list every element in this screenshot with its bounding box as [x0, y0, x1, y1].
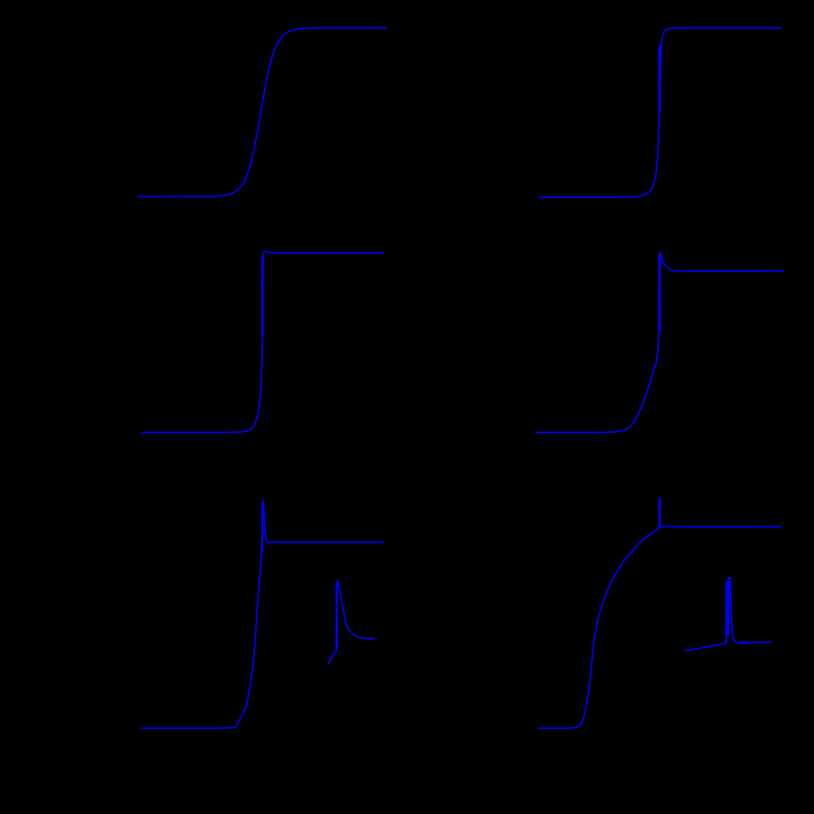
wire row2-right thick vertical segment: [658, 255, 661, 332]
wire inset-right left needle edge: [725, 582, 727, 643]
wire row2-left thick vertical segment: [261, 256, 263, 336]
curve row1-left smooth sigmoid step: [138, 28, 387, 196]
wire inset-left thick needle segment: [336, 584, 338, 650]
curve inset-left impulse response: [328, 581, 375, 665]
wire inset-right baseline thick bumps: [739, 641, 749, 643]
curve row2-left sharp step with small overshoot: [141, 251, 384, 432]
curve row3-left step with spike overshoot: [141, 501, 384, 728]
curve row3-right slow exponential step: [538, 527, 781, 729]
wire row3-right needle spike: [658, 498, 660, 526]
curve inset-right impulse response spike: [685, 578, 772, 651]
curve row1-right sharp sigmoid step: [538, 28, 781, 197]
wire inset-right needle body: [727, 581, 729, 636]
wire row3-left thick needle segment: [261, 502, 263, 552]
curve row2-right step with overshoot decay: [535, 253, 784, 433]
wire row1-right thick vertical segment: [658, 46, 661, 112]
